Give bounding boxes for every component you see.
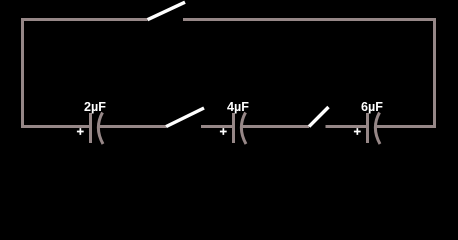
capacitor C1 2uF — [89, 113, 103, 145]
polarity + for C1 — [77, 128, 84, 135]
wire: bottom segment between S3 and C3 — [326, 125, 367, 128]
capacitor C3 6uF — [366, 113, 380, 145]
wire: top right segment — [183, 18, 436, 21]
wire: top left segment — [21, 18, 148, 21]
wire: right vertical side — [433, 18, 436, 128]
wire: left vertical side — [21, 18, 24, 128]
wire: bottom segment between C2 and switch S3 — [241, 125, 309, 128]
switch S3 (open, between C2 and C3) — [309, 107, 329, 127]
wire: bottom segment from C3 to right corner — [375, 125, 436, 128]
wire: bottom segment between C1 and switch S2 — [98, 125, 166, 128]
polarity + for C2 — [220, 128, 227, 135]
capacitor C2 4uF — [232, 113, 246, 145]
wire: bottom segment from left corner to C1 — [21, 125, 89, 128]
svg-text:6µF: 6µF — [361, 100, 383, 114]
wire: bottom segment between S2 and C2 — [201, 125, 232, 128]
svg-text:4µF: 4µF — [227, 100, 249, 114]
svg-text:2µF: 2µF — [84, 100, 106, 114]
switch S1 (open, top) — [148, 2, 186, 20]
switch S2 (open, between C1 and C2) — [166, 108, 204, 127]
polarity + for C3 — [354, 128, 361, 135]
